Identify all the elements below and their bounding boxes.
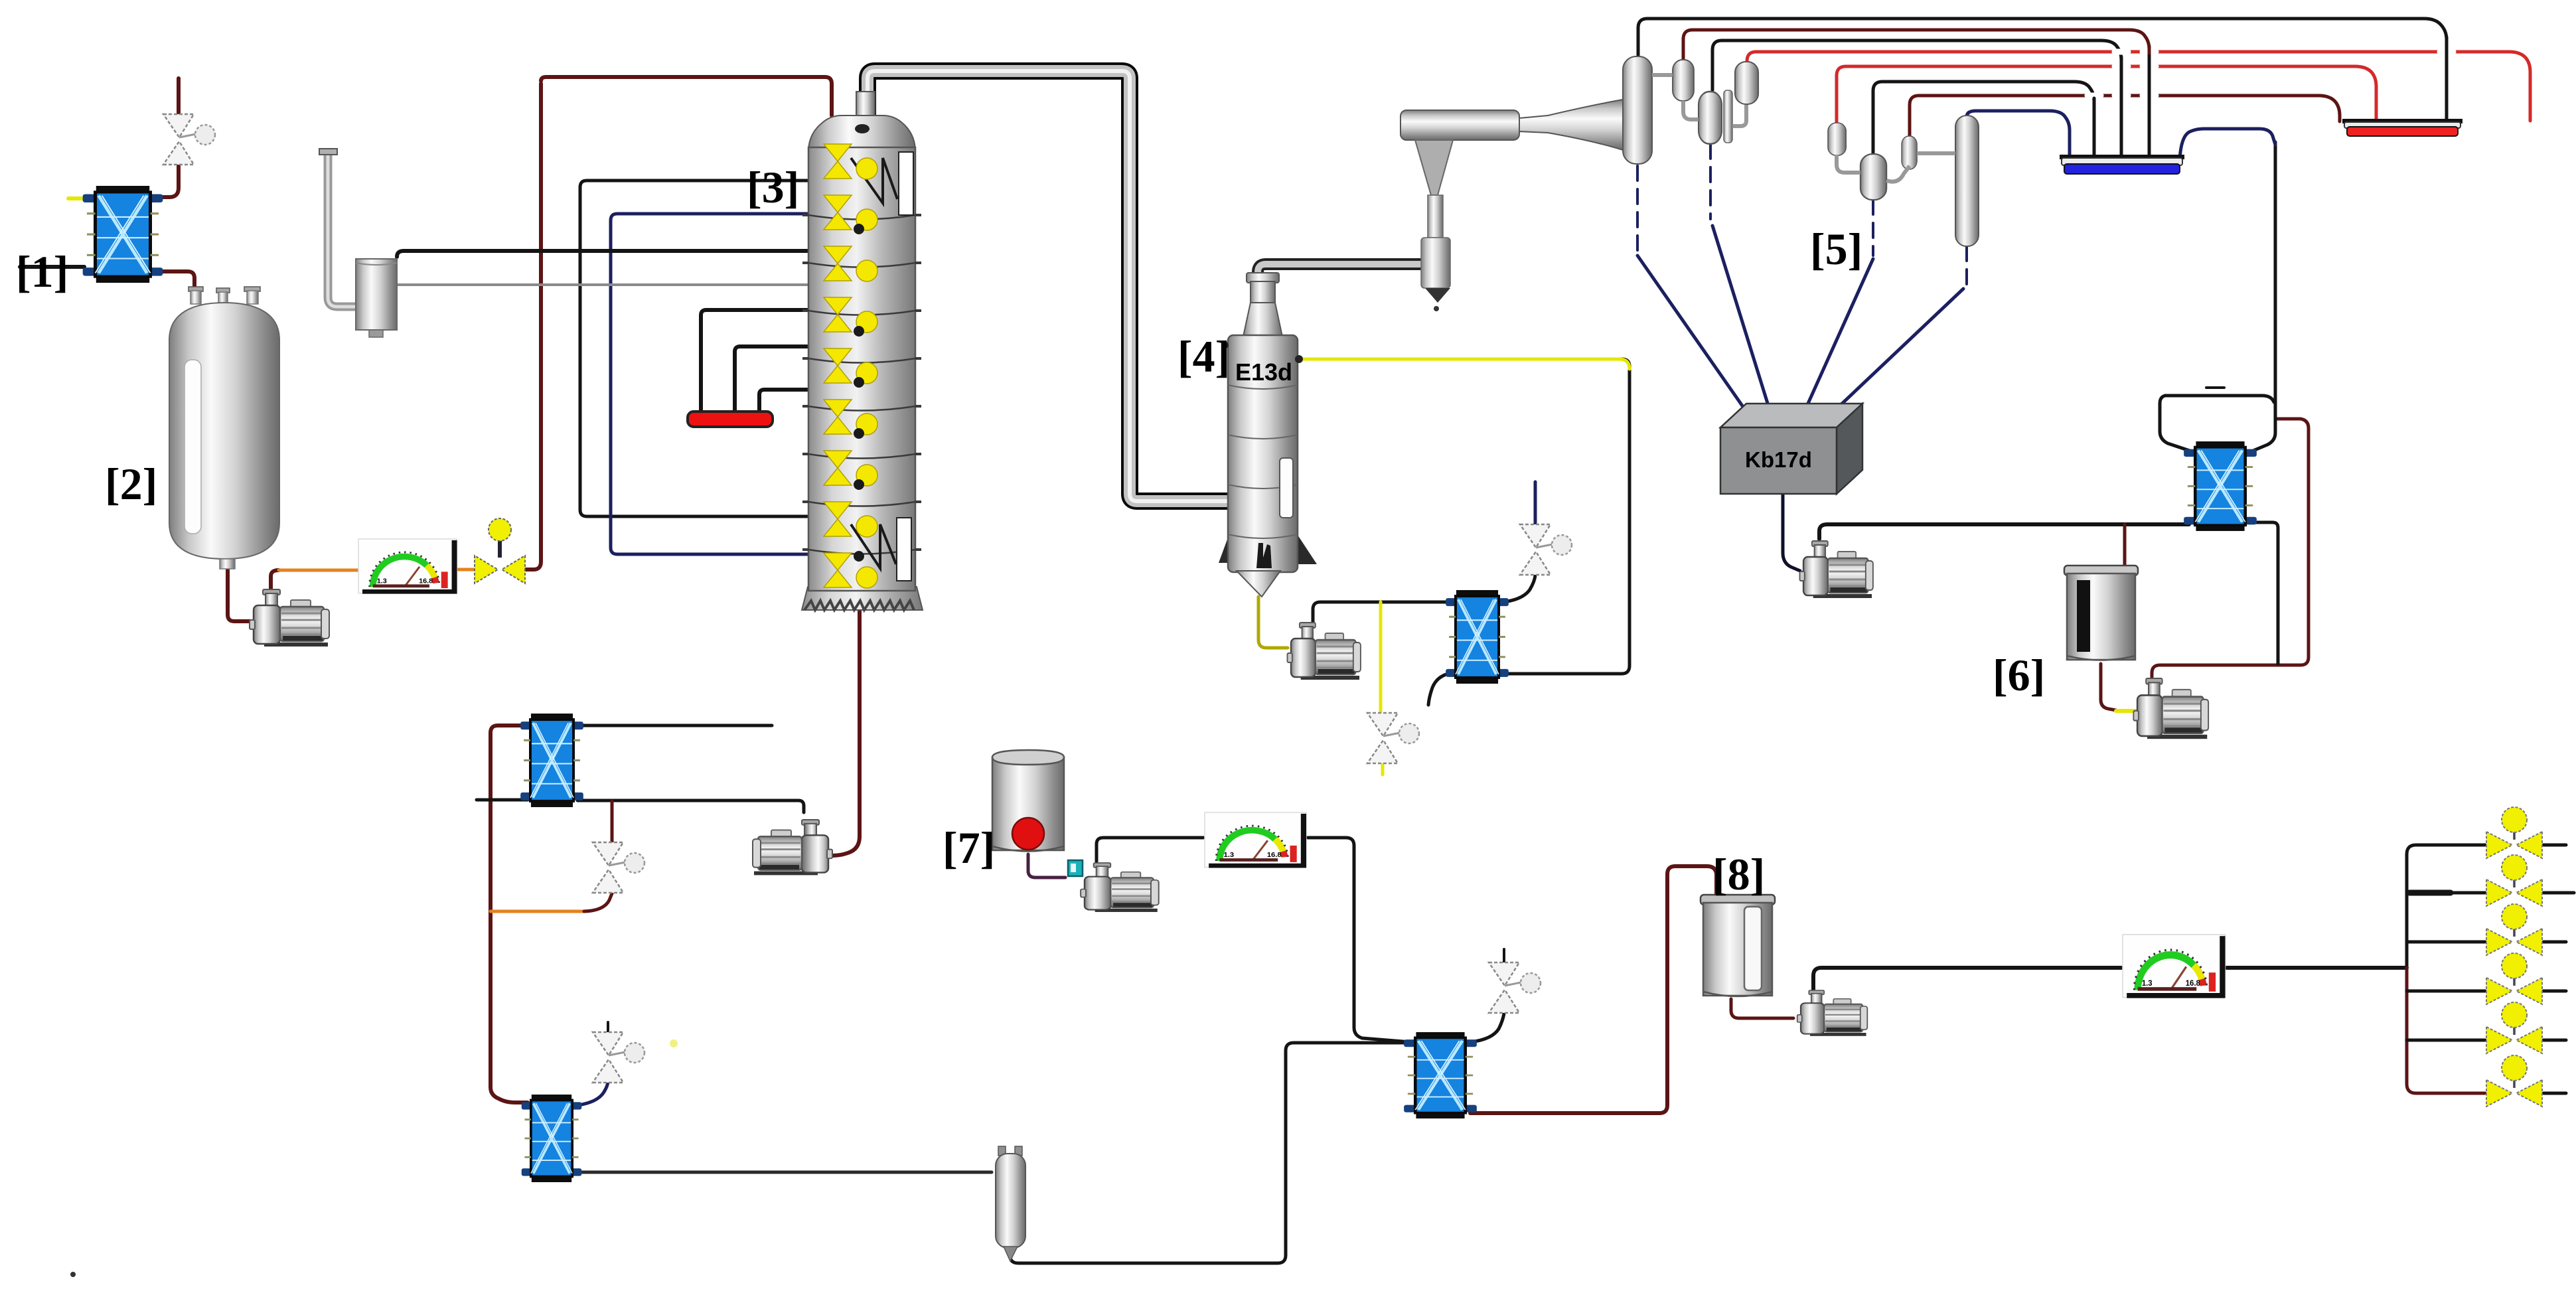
svg-text:Kb17d: Kb17d <box>1745 447 1812 472</box>
svg-text:[7]: [7] <box>943 822 995 873</box>
svg-text:[5]: [5] <box>1810 224 1862 274</box>
svg-text:[6]: [6] <box>1993 650 2045 700</box>
svg-text:[3]: [3] <box>747 162 799 212</box>
svg-text:[1]: [1] <box>16 246 68 297</box>
svg-text:[2]: [2] <box>105 459 157 509</box>
svg-text:E13d: E13d <box>1235 358 1292 386</box>
svg-text:[8]: [8] <box>1712 849 1765 899</box>
svg-text:[4]: [4] <box>1177 331 1230 382</box>
